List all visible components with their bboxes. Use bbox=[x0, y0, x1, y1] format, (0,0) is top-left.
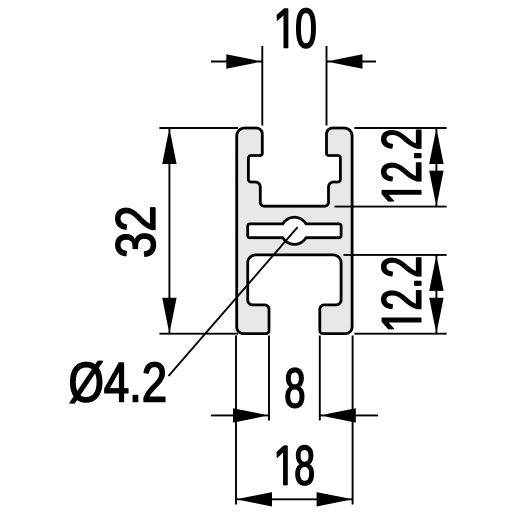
dim 12.2 upper: dimension line bbox=[435, 128, 437, 207]
dim text 8 bbox=[286, 368, 304, 408]
dim 12.2 lower: extension lines bbox=[344, 255, 447, 334]
leader line for hole callout bbox=[169, 227, 298, 376]
dim 32: dimension line bbox=[168, 128, 170, 334]
dim text 12.2 lower (rotated) bbox=[382, 258, 421, 329]
arrowheads dim 32 bbox=[162, 128, 176, 164]
dim 18: dimension line bbox=[236, 498, 353, 500]
dim 10: dimension line bbox=[211, 61, 376, 63]
dim text 10 bbox=[277, 8, 315, 48]
arrowheads dim 10 bbox=[226, 54, 262, 68]
arrowheads dim 18 bbox=[236, 492, 272, 506]
dim 10: extension lines bbox=[262, 46, 326, 126]
dim text 12.2 upper (rotated) bbox=[382, 130, 421, 201]
dim 32: extension lines bbox=[159, 128, 238, 334]
arrowheads dim 12.2 upper bbox=[429, 128, 443, 164]
arrowheads dim 12.2 lower bbox=[429, 255, 443, 291]
dim text 18 bbox=[277, 446, 313, 486]
profile cross-section body bbox=[237, 128, 352, 334]
dim text 32 (rotated) bbox=[116, 208, 156, 256]
dim 8: dimension line bbox=[211, 414, 378, 416]
dim 12.2 upper: extension lines bbox=[335, 128, 447, 207]
arrowheads dim 8 bbox=[233, 408, 269, 422]
dim 12.2 lower: dimension line bbox=[435, 255, 437, 334]
dim 18: extension lines bbox=[236, 336, 353, 505]
hole callout text bbox=[70, 361, 165, 403]
dim 8: extension lines bbox=[269, 336, 320, 421]
